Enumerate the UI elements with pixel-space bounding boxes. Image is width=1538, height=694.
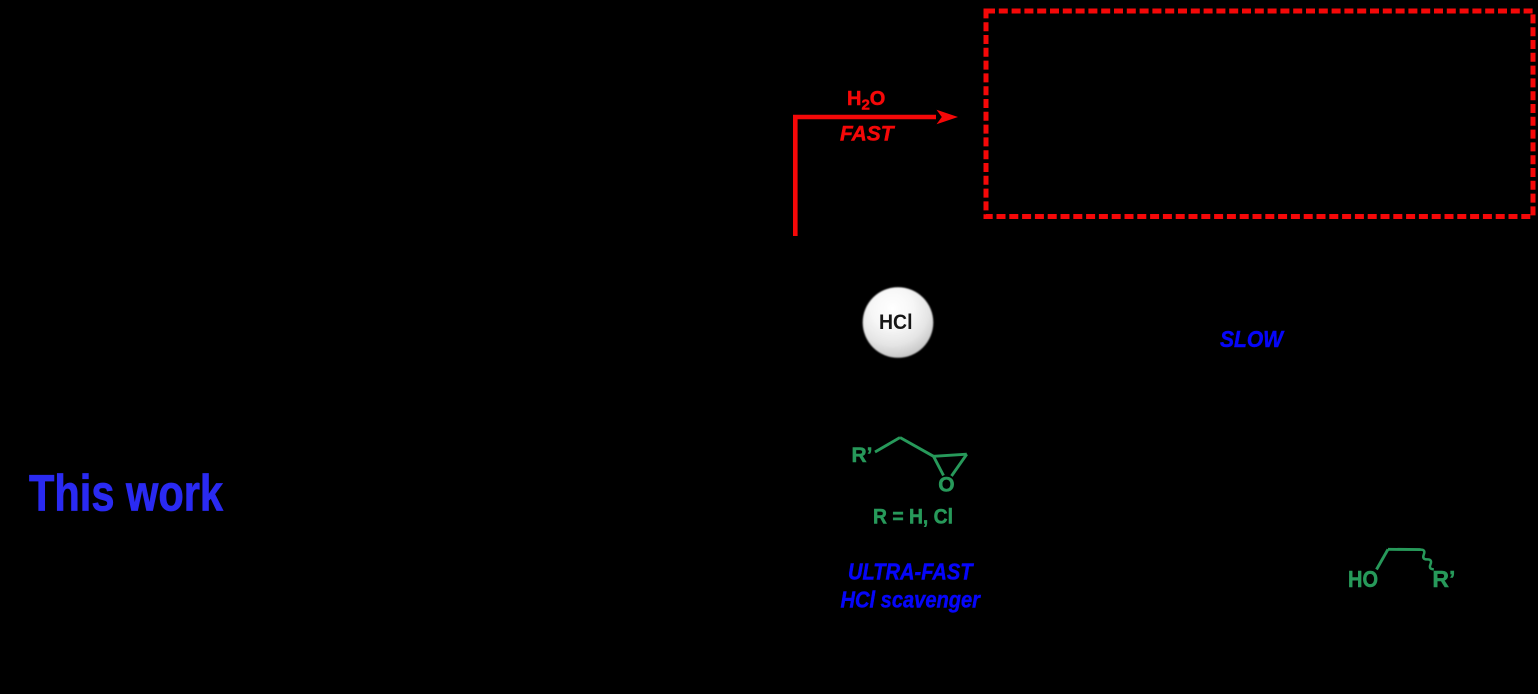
epoxide ring top bond C-C: [934, 454, 967, 456]
svg-text:R’: R’: [852, 444, 873, 467]
svg-text:FAST: FAST: [840, 123, 896, 146]
HCl sphere: [863, 287, 934, 358]
svg-text:O: O: [938, 474, 954, 497]
epoxide ring right bond C-O: [952, 454, 967, 476]
svg-text:This work: This work: [29, 465, 224, 522]
svg-text:SLOW: SLOW: [1220, 326, 1285, 352]
epoxide bond R'-CH2: [875, 438, 900, 453]
svg-text:HCl: HCl: [879, 311, 913, 334]
svg-text:HO: HO: [1348, 566, 1378, 592]
svg-text:HCl scavenger: HCl scavenger: [841, 587, 981, 613]
red arrowhead: [937, 110, 959, 124]
diol bond O-CH2: [1377, 549, 1389, 569]
diol wavy bond to R': [1421, 550, 1434, 570]
epoxide bond CH2-C: [900, 438, 934, 457]
red reaction arrow (L-shaped with head): [795, 117, 936, 236]
red dashed product box: [986, 11, 1533, 217]
epoxide ring left bond C-O: [934, 456, 944, 475]
svg-text:R’: R’: [1432, 566, 1455, 592]
diol bond CH2-CH2 (horizontal): [1388, 548, 1421, 551]
svg-text:R = H, Cl: R = H, Cl: [873, 506, 953, 529]
svg-text:ULTRA-FAST: ULTRA-FAST: [848, 559, 974, 585]
